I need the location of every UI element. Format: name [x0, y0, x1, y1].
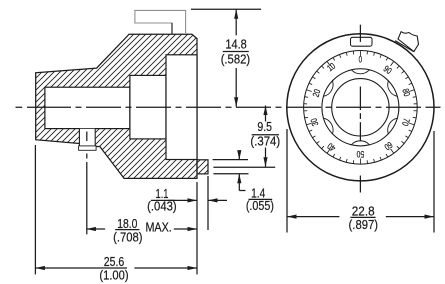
svg-text:(1.00): (1.00): [99, 268, 128, 283]
svg-text:(.055): (.055): [246, 198, 274, 213]
svg-text:(.708): (.708): [113, 230, 142, 245]
svg-text:9.5: 9.5: [257, 119, 272, 134]
svg-text:50: 50: [357, 149, 365, 159]
svg-text:MAX.: MAX.: [145, 219, 171, 234]
svg-text:(.043): (.043): [147, 199, 177, 214]
svg-text:14.8: 14.8: [225, 37, 246, 52]
svg-text:0: 0: [359, 55, 363, 65]
svg-text:(.582): (.582): [221, 52, 250, 67]
svg-text:(.897): (.897): [349, 217, 379, 232]
svg-text:(.374): (.374): [250, 134, 280, 149]
